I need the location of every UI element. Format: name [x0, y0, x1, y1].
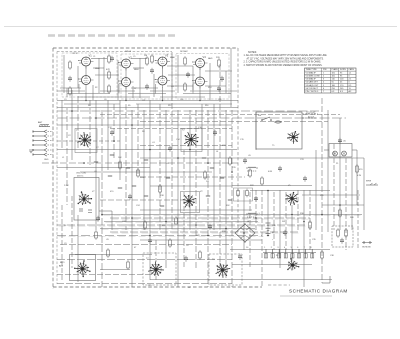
tube V1A — [78, 53, 93, 68]
notes text — [244, 51, 328, 67]
svg-text:L6: L6 — [247, 221, 249, 223]
svg-text:PIN 7 NOTE 3: PIN 7 NOTE 3 — [306, 91, 320, 93]
svg-text:CATH: CATH — [349, 68, 355, 71]
capacitor C21 — [340, 238, 344, 244]
power switch — [258, 115, 272, 121]
wires top strip vertical — [64, 48, 231, 107]
svg-text:R12: R12 — [168, 105, 171, 107]
scan smudge 2 — [280, 295, 332, 297]
resistor R20 — [356, 164, 364, 174]
svg-text:455 KC: 455 KC — [77, 176, 84, 178]
svg-text:R2: R2 — [95, 87, 97, 89]
svg-text:OSC. COIL: OSC. COIL — [76, 173, 87, 175]
resistors misc — [95, 156, 342, 270]
svg-text:NOTES:: NOTES: — [248, 51, 257, 54]
svg-text:C1: C1 — [93, 56, 95, 58]
capacitors misc — [96, 130, 307, 262]
label 115VAC — [306, 112, 316, 119]
svg-text:V1: V1 — [89, 53, 93, 57]
svg-text:AT 117 V AC. VOLTAGES MAY VARY: AT 117 V AC. VOLTAGES MAY VARY 20% WITH … — [247, 57, 325, 60]
svg-text:C5: C5 — [133, 56, 135, 58]
wires HT band ghost — [59, 216, 364, 237]
transformer T6 box — [70, 255, 96, 281]
svg-text:3: 3 — [277, 247, 278, 249]
tube area labels — [64, 50, 221, 107]
T1 can — [75, 129, 97, 153]
wires top strip horizontal — [57, 59, 238, 108]
border bottom right seg — [268, 284, 290, 286]
resistor R6b — [69, 86, 72, 96]
wire V1 pair — [85, 66, 87, 76]
tube V2B — [118, 78, 133, 90]
svg-text:GND: GND — [44, 159, 49, 161]
transformer T2 — [184, 132, 199, 146]
label speaker — [362, 247, 371, 249]
border corner foot — [322, 276, 330, 283]
speaker terminals — [362, 242, 372, 244]
transformer T9 — [287, 258, 299, 270]
shield box 2 — [121, 54, 172, 99]
tube V4A — [192, 55, 207, 70]
capacitor C2 — [186, 72, 190, 78]
power box — [256, 112, 302, 149]
resistor R24 — [246, 189, 249, 198]
transformer T5 — [285, 192, 298, 205]
svg-text:V4: V4 — [203, 55, 207, 59]
svg-text:V3: V3 — [165, 53, 169, 57]
svg-text:2: 2 — [271, 247, 272, 249]
svg-text:ANT: ANT — [38, 121, 43, 124]
svg-text:SW: SW — [258, 115, 261, 117]
tube V3A — [155, 53, 170, 68]
scan smudge — [48, 34, 175, 37]
wire V4 pair — [199, 68, 201, 78]
pilot lamp 2 — [342, 151, 347, 156]
fuse — [274, 121, 282, 123]
filter cap bank — [266, 223, 271, 236]
choke L5 — [246, 167, 258, 177]
label T7 — [146, 258, 149, 260]
svg-text:6.8K: 6.8K — [268, 171, 273, 173]
wires middle buses — [42, 111, 364, 210]
divider box — [234, 188, 253, 201]
wire osc out — [99, 211, 112, 230]
transformer T4 — [183, 195, 196, 207]
border left inner — [56, 52, 58, 285]
svg-text:R11: R11 — [171, 86, 174, 88]
bridge rectifier — [235, 223, 255, 242]
svg-text:SCRN: SCRN — [340, 69, 346, 71]
resistor chain4 — [184, 82, 187, 92]
transformer T3 — [78, 191, 93, 205]
wire V2 pair — [125, 68, 127, 78]
border bottom — [53, 286, 262, 288]
svg-text:1ST IF: 1ST IF — [72, 53, 78, 55]
tube V1B — [78, 76, 93, 88]
transformer T7 — [148, 262, 164, 276]
resistor chain6 — [151, 54, 154, 64]
wires HT bus band — [57, 215, 362, 236]
svg-text:1M: 1M — [206, 181, 209, 183]
label T1 — [76, 130, 79, 132]
T4 can — [181, 192, 200, 213]
svg-text:PLATE: PLATE — [332, 68, 339, 71]
capacitor chain5 — [217, 86, 221, 92]
svg-text:220K: 220K — [140, 177, 145, 179]
svg-text:V3 6BA6 IF: V3 6BA6 IF — [306, 78, 317, 81]
svg-text:TUBE TYPE: TUBE TYPE — [306, 69, 318, 71]
label output — [357, 175, 362, 177]
wire y185 — [232, 185, 312, 187]
power transformer core — [287, 131, 299, 144]
transformer T8 — [216, 263, 231, 278]
antenna terminals — [32, 130, 53, 156]
terminal strip — [263, 247, 316, 258]
tube V3B — [155, 76, 170, 88]
svg-text:2ND IF: 2ND IF — [125, 51, 132, 53]
resistor R6 — [69, 60, 72, 70]
tone box — [329, 144, 352, 158]
svg-text:4. SWITCH SHOWN IN AM POSITION: 4. SWITCH SHOWN IN AM POSITION VIEWED FR… — [244, 64, 323, 67]
svg-text:5: 5 — [291, 247, 292, 249]
shield box 1 — [62, 53, 117, 97]
resistor R2 — [106, 69, 110, 80]
voltage table — [305, 68, 357, 93]
tube cathode stubs — [79, 84, 201, 101]
wire output right — [324, 150, 357, 205]
svg-text:V5 6AQ5 OUT: V5 6AQ5 OUT — [306, 84, 320, 87]
label BFO — [59, 262, 65, 268]
svg-text:R16: R16 — [205, 105, 208, 107]
svg-text:8: 8 — [310, 247, 311, 249]
scan streak — [4, 26, 397, 28]
capacitor C1 — [150, 68, 154, 74]
border left — [52, 48, 54, 289]
tube V4B — [192, 77, 207, 89]
antenna trimmer — [38, 121, 50, 127]
capacitor C3 — [220, 76, 224, 82]
wire V3 pair — [162, 66, 164, 76]
resistor R23 — [237, 189, 240, 198]
T2 can — [181, 129, 202, 152]
wires bottom buses — [57, 240, 332, 284]
transformer T6 — [74, 260, 91, 277]
resistor R4 — [184, 56, 187, 66]
svg-text:6BE6: 6BE6 — [134, 69, 139, 71]
svg-text:2.2M: 2.2M — [64, 185, 69, 187]
shield box T8 — [209, 254, 242, 285]
transformer T1 — [77, 132, 91, 147]
ground lug — [29, 150, 33, 153]
solder pads — [94, 155, 232, 206]
oscillator coil box — [74, 173, 99, 221]
capacitor C4 — [68, 76, 72, 82]
capacitor C20 — [338, 138, 347, 144]
border top inner — [57, 51, 172, 53]
svg-text:GN RD BK: GN RD BK — [362, 247, 371, 249]
resistor chain2 — [108, 84, 111, 94]
wires vertical runs — [62, 64, 364, 287]
svg-text:4: 4 — [284, 247, 285, 249]
svg-text:ADJ: ADJ — [59, 265, 63, 268]
pilot lamp 1 — [333, 151, 338, 156]
border right upper — [237, 48, 239, 232]
svg-text:R9: R9 — [128, 105, 130, 107]
svg-text:7: 7 — [304, 247, 305, 249]
svg-text:6.3V: 6.3V — [357, 175, 362, 177]
output box — [332, 226, 353, 247]
capacitor chain7 — [110, 56, 114, 62]
svg-text:SPKR: SPKR — [366, 181, 372, 183]
svg-text:5W: 5W — [282, 221, 285, 223]
svg-text:V6 5Y3 RECT: V6 5Y3 RECT — [306, 88, 319, 90]
line cord — [302, 114, 318, 118]
phones jack — [366, 181, 378, 186]
svg-text:V1 6BA6 IF: V1 6BA6 IF — [306, 71, 317, 74]
choke L6 — [246, 213, 258, 223]
resistor R1 — [108, 54, 111, 64]
svg-text:47K: 47K — [106, 69, 110, 71]
svg-text:6BA6: 6BA6 — [170, 56, 175, 59]
resistor R21 — [337, 228, 348, 238]
svg-text:V2 6BE6 CONV: V2 6BE6 CONV — [306, 75, 321, 77]
label T8 — [212, 259, 215, 261]
svg-text:2. 3. CAPACITORS IN MFD UNLESS: 2. 3. CAPACITORS IN MFD UNLESS NOTED. RE… — [244, 61, 322, 64]
svg-text:1: 1 — [264, 247, 265, 249]
svg-text:DET-AVC: DET-AVC — [180, 50, 189, 53]
padder cap — [79, 209, 92, 213]
svg-text:R7: R7 — [134, 88, 136, 90]
label filter — [272, 225, 277, 241]
svg-text:6AV6: 6AV6 — [208, 57, 212, 60]
svg-text:1. ALL DC VOLTAGES MEASURED WI: 1. ALL DC VOLTAGES MEASURED WITH VTVM ZE… — [244, 54, 328, 57]
border top — [53, 47, 238, 49]
svg-text:1M: 1M — [144, 55, 147, 57]
resistor R5 — [216, 57, 220, 68]
svg-text:PIN: PIN — [323, 69, 327, 71]
capacitor chain3 — [145, 84, 149, 90]
resistor R3 — [144, 55, 148, 66]
svg-text:BFO: BFO — [60, 262, 65, 264]
svg-text:SCHEMATIC DIAGRAM: SCHEMATIC DIAGRAM — [289, 289, 348, 294]
tube V2A — [118, 55, 133, 70]
title text — [289, 289, 348, 294]
svg-text:6: 6 — [297, 247, 298, 249]
label T2 — [182, 130, 185, 132]
svg-text:V4 6AV6 DET: V4 6AV6 DET — [306, 81, 319, 84]
shield box T7 — [143, 253, 176, 285]
shield box 3 — [176, 54, 229, 100]
